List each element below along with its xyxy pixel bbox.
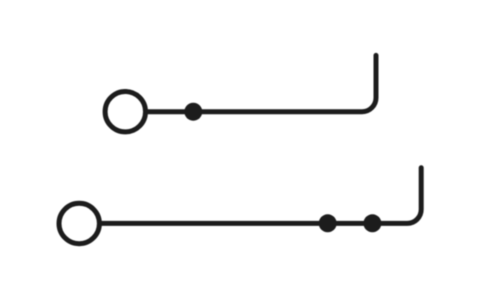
terminal circle (lower level, left) [59,203,99,243]
junction dot (lower level, right) [363,214,381,232]
wire (upper level: horizontal run with rounded bend up) [148,55,376,111]
wire (lower level: horizontal run with rounded bend up) [102,168,422,224]
terminal circle (upper level, left) [105,92,145,132]
junction dot (lower level, left) [319,214,337,232]
junction dot (upper level) [184,103,202,121]
